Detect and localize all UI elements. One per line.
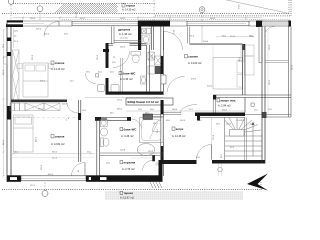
svg-text:75/125: 75/125 <box>76 11 78 18</box>
svg-text:тераса: тераса <box>126 5 135 8</box>
svg-text:315.0: 315.0 <box>52 158 58 160</box>
svg-text:А: 12.81 m2: А: 12.81 m2 <box>51 143 65 146</box>
bathroom1 door arc <box>113 51 130 68</box>
wall bath2/laundry <box>100 152 163 154</box>
left dim chain <box>3 30 5 176</box>
right terrace dotted edge <box>288 0 290 14</box>
bathroom1 dim row <box>85 97 163 99</box>
closet left wall <box>111 27 113 45</box>
svg-text:226.0: 226.0 <box>36 29 42 31</box>
svg-text:226.2: 226.2 <box>40 81 46 83</box>
svg-text:120.0: 120.0 <box>237 4 239 10</box>
svg-text:290.0: 290.0 <box>222 110 228 112</box>
bedroom3 door <box>72 163 86 177</box>
svg-text:спалня: спалня <box>55 136 65 139</box>
wall under bedroom2 (y95-97.5) <box>213 94 291 96</box>
svg-text:400.0: 400.0 <box>203 41 209 43</box>
svg-text:А: 2.84 m2: А: 2.84 m2 <box>218 104 231 108</box>
svg-text:400.0: 400.0 <box>210 18 216 20</box>
bottom grid bubble <box>42 191 48 197</box>
svg-text:дрешник: дрешник <box>118 28 131 32</box>
svg-text:305.8: 305.8 <box>62 104 68 106</box>
svg-text:246.2: 246.2 <box>36 136 38 142</box>
svg-text:143.8: 143.8 <box>120 150 126 152</box>
bottom terrace hatch <box>105 191 243 200</box>
staircase <box>225 118 263 161</box>
svg-text:346.0: 346.0 <box>117 109 123 111</box>
svg-text:(h-1.60): (h-1.60) <box>121 38 128 40</box>
hall dim <box>211 118 213 161</box>
bedroom2 door to hall <box>180 104 197 112</box>
svg-text:226.0: 226.0 <box>30 18 36 20</box>
bedroom1 right wall (black) <box>106 43 109 68</box>
svg-text:тераса: тераса <box>124 191 134 195</box>
bedroom1 door arc <box>85 74 95 84</box>
bedroom3 bed <box>14 115 34 152</box>
top terrace label <box>122 4 125 7</box>
bedroom2 label <box>185 55 188 58</box>
north arrow <box>247 174 268 191</box>
bottom terrace dotted rail <box>2 189 262 191</box>
bathroom1 top wall <box>109 43 114 45</box>
svg-text:А: 12.67 m2: А: 12.67 m2 <box>120 196 135 200</box>
bathroom1 label <box>119 72 122 75</box>
toilet bathroom1 <box>131 52 147 85</box>
corridor door arc <box>265 27 275 37</box>
hall left wall lower (bath2 right wall) <box>160 100 162 176</box>
svg-text:175.0: 175.0 <box>117 100 123 102</box>
bedroom2 door <box>167 76 185 92</box>
bathroom2 label <box>120 128 123 131</box>
bedroom3 dim line <box>12 153 95 155</box>
shaft crossed boxes <box>148 52 162 74</box>
top terrace lower dotted rail <box>2 13 289 15</box>
bathroom2 top wall <box>95 117 101 121</box>
dashed break line bedroom3 <box>12 117 78 119</box>
svg-text:140.0: 140.0 <box>230 36 236 38</box>
stair left wall <box>224 118 226 161</box>
bedroom1 nightstands <box>18 64 23 69</box>
svg-text:140.0: 140.0 <box>226 124 232 126</box>
svg-text:478.5: 478.5 <box>191 79 197 81</box>
vanity / nightstand <box>98 85 105 92</box>
мокро пом label <box>217 99 220 102</box>
wall segment 170-187 <box>170 20 187 22</box>
sink bathroom2 <box>100 128 107 136</box>
hatch marks below step wall <box>150 182 162 188</box>
bedroom2 right wall <box>242 44 244 95</box>
svg-text:365.2: 365.2 <box>52 151 58 153</box>
right corridor walls <box>288 27 290 118</box>
svg-text:антре: антре <box>176 128 184 131</box>
svg-text:153.8: 153.8 <box>213 134 215 140</box>
svg-text:баня+WC: баня+WC <box>124 128 137 132</box>
svg-text:А: 14.30 m2: А: 14.30 m2 <box>122 8 136 11</box>
misc dimension ticks along top wall <box>13 17 262 20</box>
top exterior wall: black pier left <box>7 20 23 22</box>
wall bedroom1/bedroom3 <box>11 100 67 103</box>
grid bubble B <box>37 6 43 12</box>
bathroom2 left wall <box>96 117 98 176</box>
column circle symbol below wall <box>218 167 223 172</box>
svg-text:305.0: 305.0 <box>97 54 99 60</box>
svg-text:А: 1.34 m2: А: 1.34 m2 <box>119 32 132 36</box>
svg-text:260.1: 260.1 <box>239 56 241 62</box>
svg-text:спалня: спалня <box>55 62 65 65</box>
left wall black blocks <box>7 38 11 42</box>
svg-text:360.2: 360.2 <box>38 109 44 111</box>
corner block right <box>288 21 291 27</box>
laundry door <box>143 160 153 170</box>
top terrace upper dotted rail <box>13 3 156 5</box>
svg-text:148.2: 148.2 <box>120 47 126 49</box>
bottom exterior wall <box>7 175 21 182</box>
svg-text:148.0: 148.0 <box>172 109 178 111</box>
bathroom1 <box>146 45 148 92</box>
right wall gray fill <box>262 22 289 26</box>
svg-text:165.0: 165.0 <box>269 44 271 50</box>
svg-text:спалня: спалня <box>188 56 198 59</box>
black pier right <box>249 20 256 22</box>
svg-text:315.0: 315.0 <box>30 185 36 187</box>
hall-stairs door <box>197 145 212 160</box>
laundry label <box>120 161 123 164</box>
svg-text:940.0: 940.0 <box>48 174 54 176</box>
svg-text:435.2: 435.2 <box>80 18 86 20</box>
svg-text:105.4: 105.4 <box>189 36 195 38</box>
right terrace diagonal <box>213 0 289 14</box>
WC boxes next to closet <box>142 29 151 45</box>
step wall <box>159 160 163 176</box>
bedroom1 wardrobe crossed <box>13 50 20 103</box>
closet (дрешник) <box>138 22 141 50</box>
hall left wall (x161) <box>160 27 162 96</box>
stair right wall <box>261 27 263 164</box>
grid line C <box>153 0 155 21</box>
interior window sill lines under top-right corridor <box>241 45 244 62</box>
hall label <box>172 127 175 130</box>
svg-text:306.0: 306.0 <box>3 69 5 75</box>
svg-text:220.0: 220.0 <box>207 86 213 88</box>
stair arrow <box>252 122 254 156</box>
bedroom3 label <box>51 135 54 138</box>
svg-text:246.2: 246.2 <box>3 139 5 145</box>
svg-text:435.2: 435.2 <box>44 34 50 36</box>
svg-text:305.0: 305.0 <box>32 54 34 60</box>
right terrace second dotted rail <box>155 15 291 17</box>
left exterior wall <box>6 21 8 183</box>
top terrace hatch <box>55 4 118 13</box>
shaft wall <box>151 27 153 51</box>
svg-text:пералня: пералня <box>124 161 136 165</box>
bedroom1 bed <box>23 63 48 97</box>
bedroom1 label <box>51 61 54 64</box>
entry door arc top <box>164 31 183 50</box>
oval tub <box>137 144 155 156</box>
svg-text:баня+WC: баня+WC <box>123 72 136 76</box>
bath niche divider <box>120 58 122 92</box>
bathroom2 door <box>132 119 142 129</box>
black wall pier over closet <box>138 21 170 27</box>
hall-bedroom3 door <box>152 120 161 132</box>
top wall double line 23-72 <box>23 20 72 22</box>
svg-text:А: 4.46 m2: А: 4.46 m2 <box>121 134 134 138</box>
lower wall right of step <box>163 160 197 164</box>
bathtub bathroom2 <box>140 118 164 143</box>
grid bubble A <box>8 0 14 4</box>
extra dimension annotations <box>12 17 294 170</box>
hall top wall <box>143 114 153 119</box>
corridor wall right of мокро пом <box>244 98 246 113</box>
grid bubble D <box>199 7 205 13</box>
svg-text:16.5/28.5: 16.5/28.5 <box>236 120 245 122</box>
bedroom2 furniture <box>190 43 243 45</box>
window band 187-246 <box>187 21 249 26</box>
bottom terrace label <box>120 191 123 194</box>
wardrobe band bedroom3 <box>10 103 60 111</box>
window band 72-138 <box>72 21 138 26</box>
svg-text:А: 3.33 m2: А: 3.33 m2 <box>120 77 133 81</box>
washer <box>100 120 107 127</box>
balcony door arc <box>44 22 59 37</box>
svg-text:А: 14.23 m2: А: 14.23 m2 <box>188 62 202 65</box>
ВХОД label box <box>126 98 173 105</box>
svg-text:140.0: 140.0 <box>180 120 186 122</box>
svg-text:260.0: 260.0 <box>292 64 294 70</box>
svg-text:А: 2.73 m2: А: 2.73 m2 <box>122 167 135 171</box>
slab dotted edge above wall <box>62 19 290 21</box>
svg-text:290.2: 290.2 <box>148 151 154 153</box>
svg-text:ВХОД /2нива/ 117.18 m2: ВХОД /2нива/ 117.18 m2 <box>128 100 160 104</box>
svg-text:А: 12.36 m2: А: 12.36 m2 <box>172 135 186 138</box>
svg-text:306.0: 306.0 <box>41 164 43 170</box>
svg-text:мокро пом.: мокро пом. <box>221 99 237 103</box>
toilet bathroom2 <box>100 138 103 147</box>
svg-text:120.3: 120.3 <box>269 79 271 85</box>
wall 262-291 double <box>262 20 291 22</box>
left edge dim ticks <box>3 29 5 177</box>
